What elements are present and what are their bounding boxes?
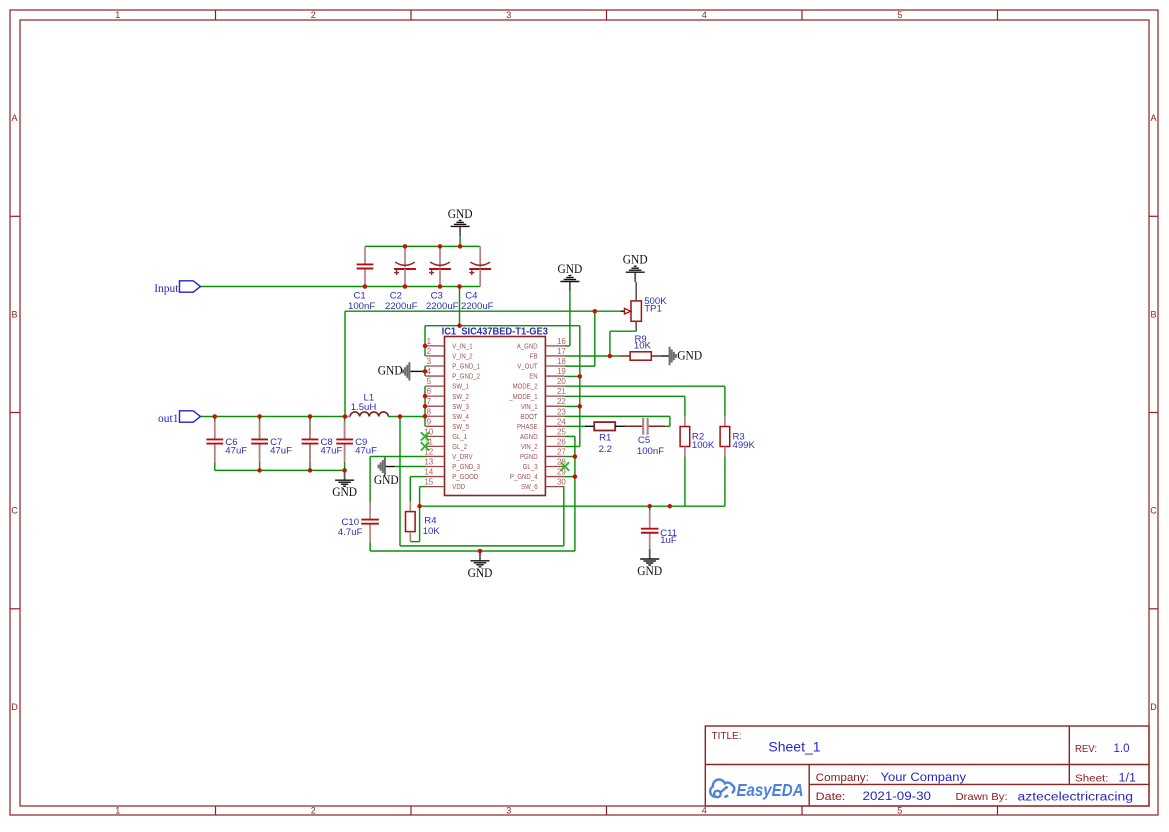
svg-text:22: 22 [557,397,566,406]
svg-text:aztecelectricracing: aztecelectricracing [1018,791,1134,803]
svg-text:SW_6: SW_6 [521,482,538,491]
svg-text:B: B [1150,309,1156,319]
svg-text:12: 12 [424,447,433,456]
svg-text:2: 2 [311,10,316,20]
svg-text:47uF: 47uF [355,445,377,456]
svg-text:24: 24 [557,417,566,426]
svg-text:SW_2: SW_2 [452,392,469,401]
svg-text:A_GND: A_GND [517,342,538,351]
svg-text:C3: C3 [431,290,443,301]
svg-text:PHASE: PHASE [517,422,538,431]
svg-text:1: 1 [115,806,120,816]
svg-text:V_DRV: V_DRV [452,452,473,461]
svg-text:100nF: 100nF [637,446,664,457]
svg-text:17: 17 [557,347,566,356]
svg-text:SW_3: SW_3 [452,402,469,411]
svg-text:2200uF: 2200uF [461,301,494,312]
svg-text:V_OUT: V_OUT [517,362,538,371]
svg-text:1: 1 [427,337,432,346]
svg-text:C4: C4 [465,290,478,301]
svg-text:9: 9 [427,417,432,426]
svg-text:SW_4: SW_4 [452,412,469,421]
svg-text:47uF: 47uF [321,445,343,456]
svg-text:5: 5 [897,806,902,816]
svg-text:SW_5: SW_5 [452,422,469,431]
svg-text:Sheet_1: Sheet_1 [768,739,820,755]
svg-text:EasyEDA: EasyEDA [737,780,804,800]
svg-text:B: B [11,309,17,319]
svg-text:10K: 10K [423,526,441,537]
svg-text:13: 13 [424,458,433,467]
svg-text:4.7uF: 4.7uF [338,527,363,538]
svg-text:EN: EN [529,372,537,381]
svg-text:GL_3: GL_3 [523,462,538,471]
svg-text:V_IN_1: V_IN_1 [452,342,472,351]
svg-text:_MODE_1: _MODE_1 [508,392,537,401]
svg-text:19: 19 [557,367,566,376]
svg-text:C1: C1 [354,290,366,301]
svg-text:20: 20 [557,377,566,386]
svg-text:MODE_2: MODE_2 [513,382,538,391]
svg-text:C5: C5 [638,435,650,446]
svg-text:5: 5 [897,10,902,20]
svg-text:25: 25 [557,427,566,436]
svg-text:2: 2 [311,806,316,816]
svg-text:P_GND_1: P_GND_1 [452,362,480,371]
svg-text:499K: 499K [733,440,756,451]
svg-text:TITLE:: TITLE: [712,731,742,742]
svg-text:3: 3 [506,806,511,816]
svg-text:BOOT: BOOT [520,412,537,421]
svg-text:10K: 10K [634,341,652,352]
svg-text:GND: GND [378,362,403,377]
svg-text:GND: GND [374,472,399,487]
svg-text:2200uF: 2200uF [426,301,459,312]
svg-text:7: 7 [427,397,432,406]
svg-text:D: D [1150,702,1157,712]
svg-text:27: 27 [557,447,566,456]
svg-text:47uF: 47uF [225,445,247,456]
svg-text:30: 30 [557,478,566,487]
svg-text:TP1: TP1 [644,304,662,315]
svg-text:3: 3 [506,10,511,20]
svg-text:GND: GND [677,348,702,363]
svg-text:GND: GND [332,484,357,499]
svg-text:P_GND_2: P_GND_2 [452,372,480,381]
svg-text:GND: GND [468,565,493,580]
svg-text:Date:: Date: [816,791,846,803]
svg-text:14: 14 [424,468,433,477]
svg-text:PGND: PGND [520,452,538,461]
svg-text:GND: GND [558,261,583,276]
svg-text:1.0: 1.0 [1114,743,1130,755]
svg-text:1uF: 1uF [660,535,677,546]
svg-text:SW_1: SW_1 [452,382,469,391]
svg-text:8: 8 [427,407,432,416]
svg-text:21: 21 [557,387,566,396]
svg-text:100nF: 100nF [348,301,375,312]
svg-text:6: 6 [427,387,432,396]
svg-text:AGND: AGND [520,432,538,441]
svg-text:REV:: REV: [1075,743,1097,755]
svg-text:4: 4 [702,806,707,816]
svg-text:IC1 SIC437BED-T1-GE3: IC1 SIC437BED-T1-GE3 [442,326,549,337]
svg-text:GND: GND [637,563,662,578]
svg-text:A: A [11,113,17,123]
svg-text:2: 2 [427,347,432,356]
svg-text:VIN_2: VIN_2 [521,442,538,451]
svg-text:Company:: Company: [816,772,869,784]
svg-text:100K: 100K [692,440,715,451]
svg-text:16: 16 [557,337,566,346]
svg-text:1: 1 [115,10,120,20]
svg-text:2.2: 2.2 [599,444,612,455]
svg-text:C: C [1150,506,1157,516]
svg-text:5: 5 [427,377,432,386]
svg-text:C: C [11,506,18,516]
svg-text:GL_2: GL_2 [452,442,467,451]
svg-text:D: D [11,702,18,712]
svg-text:VIN_1: VIN_1 [521,402,538,411]
svg-text:47uF: 47uF [270,445,292,456]
svg-text:out1: out1 [158,413,179,425]
svg-text:15: 15 [424,478,433,487]
svg-text:1/1: 1/1 [1119,773,1137,785]
svg-text:R1: R1 [599,432,611,443]
svg-text:C2: C2 [390,290,402,301]
svg-text:4: 4 [702,10,707,20]
svg-text:Sheet:: Sheet: [1075,773,1109,785]
svg-text:P_GND_4: P_GND_4 [510,472,538,481]
svg-text:V_IN_2: V_IN_2 [452,352,472,361]
svg-text:GL_1: GL_1 [452,432,467,441]
svg-text:2021-09-30: 2021-09-30 [863,791,932,803]
svg-text:2200uF: 2200uF [385,301,418,312]
svg-text:Your Company: Your Company [881,772,967,784]
svg-text:4: 4 [427,367,432,376]
svg-text:18: 18 [557,357,566,366]
svg-text:GND: GND [623,252,648,267]
svg-text:VDD: VDD [452,482,465,491]
svg-text:Drawn By:: Drawn By: [956,791,1008,803]
svg-text:GND: GND [448,206,473,221]
svg-text:26: 26 [557,437,566,446]
svg-text:P_GND_3: P_GND_3 [452,462,480,471]
svg-text:Input: Input [154,283,179,295]
svg-text:23: 23 [557,407,566,416]
svg-text:3: 3 [427,357,432,366]
svg-text:A: A [1150,113,1156,123]
svg-text:1.5uH: 1.5uH [351,402,377,413]
svg-text:FB: FB [530,352,538,361]
svg-text:P_GOOD: P_GOOD [452,472,478,481]
